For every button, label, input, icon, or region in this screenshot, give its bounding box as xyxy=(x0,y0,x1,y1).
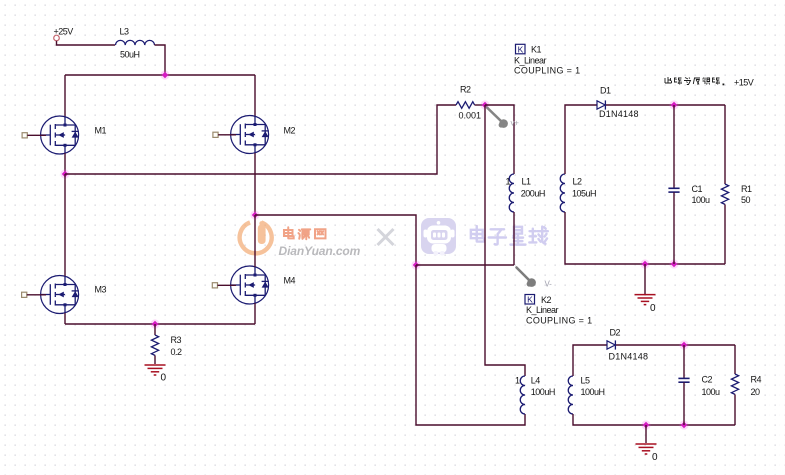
wire node X to M3 drain xyxy=(64,174,66,276)
ground 0 net 1 xyxy=(644,264,646,294)
wire bottom rail xyxy=(65,323,255,325)
svg-text:K_Linear: K_Linear xyxy=(526,305,559,315)
junction R3 top xyxy=(150,319,159,328)
svg-text:K: K xyxy=(527,295,533,305)
svg-text:100u: 100u xyxy=(692,195,711,205)
svg-text:+25V: +25V xyxy=(54,27,74,37)
watermark robot logo xyxy=(421,218,456,256)
wire L2 top to D1 xyxy=(565,105,597,174)
wire L5 top to D2 xyxy=(573,345,607,376)
svg-text:L1: L1 xyxy=(522,176,532,186)
svg-text:L2: L2 xyxy=(573,176,583,186)
svg-text:1: 1 xyxy=(506,176,511,186)
transistor M1 xyxy=(41,116,79,154)
svg-text:K_Linear: K_Linear xyxy=(514,56,547,66)
wire M2 source to node Y xyxy=(254,153,256,215)
wire from +25V to L3 xyxy=(57,41,116,45)
svg-text:M4: M4 xyxy=(284,276,296,286)
wire L5 bottom rail xyxy=(573,414,735,425)
svg-text:100uH: 100uH xyxy=(531,387,555,397)
wire M1 source to node X xyxy=(64,153,66,174)
junction C1 bottom xyxy=(669,259,678,268)
ground 0 net 2 xyxy=(645,425,647,443)
inductor L5 secondary xyxy=(568,376,573,414)
svg-text:L4: L4 xyxy=(531,376,541,386)
svg-text:D1: D1 xyxy=(600,86,611,96)
svg-text:200uH: 200uH xyxy=(521,188,545,198)
gate wire M3 xyxy=(27,294,46,296)
svg-text:D2: D2 xyxy=(610,328,621,338)
junction node X xyxy=(60,169,69,178)
svg-text:0.2: 0.2 xyxy=(171,347,183,357)
transistor M3 xyxy=(41,276,79,314)
svg-text:M1: M1 xyxy=(95,126,107,136)
gate pad M1 xyxy=(22,133,27,138)
transistor M4 xyxy=(231,266,269,304)
gate wire M1 xyxy=(27,134,46,136)
watermark dianzi xingqiu chinese text xyxy=(471,226,484,241)
ground 0 below R3 xyxy=(145,364,166,366)
wire to M2 drain xyxy=(254,75,256,117)
capacitor C1 xyxy=(673,105,675,188)
svg-text:R2: R2 xyxy=(460,85,471,95)
svg-text:100uH: 100uH xyxy=(581,387,605,397)
diode D1 xyxy=(597,101,605,109)
svg-text:R3: R3 xyxy=(171,335,182,345)
svg-text:V-: V- xyxy=(545,280,553,289)
svg-text:K2: K2 xyxy=(541,295,552,305)
gate wire M4 xyxy=(218,284,237,286)
wire node P down to L1 bottom net xyxy=(484,105,486,265)
wire M4 source xyxy=(254,303,256,324)
wire to M1 drain xyxy=(64,75,66,117)
voltage probe V+ xyxy=(487,108,502,123)
gate pad M2 xyxy=(213,132,218,137)
svg-text:R4: R4 xyxy=(751,375,762,385)
junction top rail xyxy=(160,70,169,79)
watermark x separator xyxy=(378,229,394,245)
svg-text:D1N4148: D1N4148 xyxy=(599,109,639,119)
junction ground net 1 xyxy=(640,259,649,268)
wire D1 to output net xyxy=(606,104,725,106)
svg-text:L3: L3 xyxy=(120,27,130,37)
resistor R2 xyxy=(456,102,475,109)
svg-text:50uH: 50uH xyxy=(120,50,140,60)
svg-text:COUPLING = 1: COUPLING = 1 xyxy=(514,66,580,76)
wire M4 drain xyxy=(254,215,256,267)
watermark dianyuan logo ring xyxy=(240,221,272,253)
svg-text:1: 1 xyxy=(515,376,520,386)
wire node Y to transformer return xyxy=(255,215,416,265)
coupling K1 symbol xyxy=(516,44,526,54)
svg-text:v+: v+ xyxy=(511,119,520,128)
svg-text:R1: R1 xyxy=(741,184,752,194)
junction node Y xyxy=(250,210,259,219)
svg-text:L5: L5 xyxy=(581,376,591,386)
inductor L4 primary xyxy=(520,376,525,414)
svg-text:105uH: 105uH xyxy=(572,188,596,198)
wire L1 bottom to return xyxy=(416,264,514,266)
inductor L3 xyxy=(116,40,155,45)
resistor R4 xyxy=(734,345,736,374)
wire node X to R2 xyxy=(65,105,456,174)
watermark dianyuan chinese text xyxy=(284,227,294,238)
junction C1 top xyxy=(669,100,678,109)
junction C2 top xyxy=(679,340,688,349)
gate pad M3 xyxy=(22,292,27,297)
wire from L3 to top rail xyxy=(155,45,166,75)
svg-text:0.001: 0.001 xyxy=(459,111,482,121)
wire D2 to output net 2 xyxy=(616,344,735,346)
voltage probe V- xyxy=(517,268,531,282)
svg-text:M3: M3 xyxy=(95,285,107,295)
svg-text:D1N4148: D1N4148 xyxy=(609,352,649,362)
wire L2 bottom rail xyxy=(565,212,725,264)
resistor R3 xyxy=(154,324,156,335)
junction C2 bottom xyxy=(679,420,688,429)
wire top rail xyxy=(65,74,255,76)
svg-text:100u: 100u xyxy=(702,387,721,397)
wire M3 source to bottom rail xyxy=(64,313,66,324)
inductor L1 primary xyxy=(509,174,514,212)
wire R2 to node P xyxy=(475,104,485,106)
wire node P to L4 top xyxy=(485,265,525,376)
transistor M2 xyxy=(231,116,269,154)
wire node P to L1 top xyxy=(485,105,514,174)
gate pad M4 xyxy=(212,283,217,288)
gate wire M2 xyxy=(218,134,236,136)
junction node P xyxy=(480,100,489,109)
svg-text:50: 50 xyxy=(741,195,751,205)
resistor R1 xyxy=(724,105,726,184)
feedback annotation chinese xyxy=(665,77,672,83)
power pin +25V xyxy=(54,35,60,41)
diode D2 xyxy=(607,341,615,349)
wire L1 bottom xyxy=(513,212,515,265)
inductor L2 secondary xyxy=(560,174,565,212)
junction transformer return xyxy=(411,260,420,269)
svg-text:C2: C2 xyxy=(702,375,713,385)
svg-text:M2: M2 xyxy=(284,126,296,136)
svg-text:K: K xyxy=(518,44,524,54)
svg-text:C1: C1 xyxy=(692,184,703,194)
wire return down to L4 bottom xyxy=(416,265,525,425)
svg-text:COUPLING = 1: COUPLING = 1 xyxy=(526,316,592,326)
svg-text:20: 20 xyxy=(751,387,761,397)
svg-text:DianYuan.com: DianYuan.com xyxy=(279,244,361,258)
coupling K2 symbol xyxy=(525,295,535,305)
capacitor C2 xyxy=(683,345,685,378)
svg-text:+15V: +15V xyxy=(734,78,754,88)
junction ground net 2 xyxy=(641,420,650,429)
svg-text:K1: K1 xyxy=(531,45,542,55)
